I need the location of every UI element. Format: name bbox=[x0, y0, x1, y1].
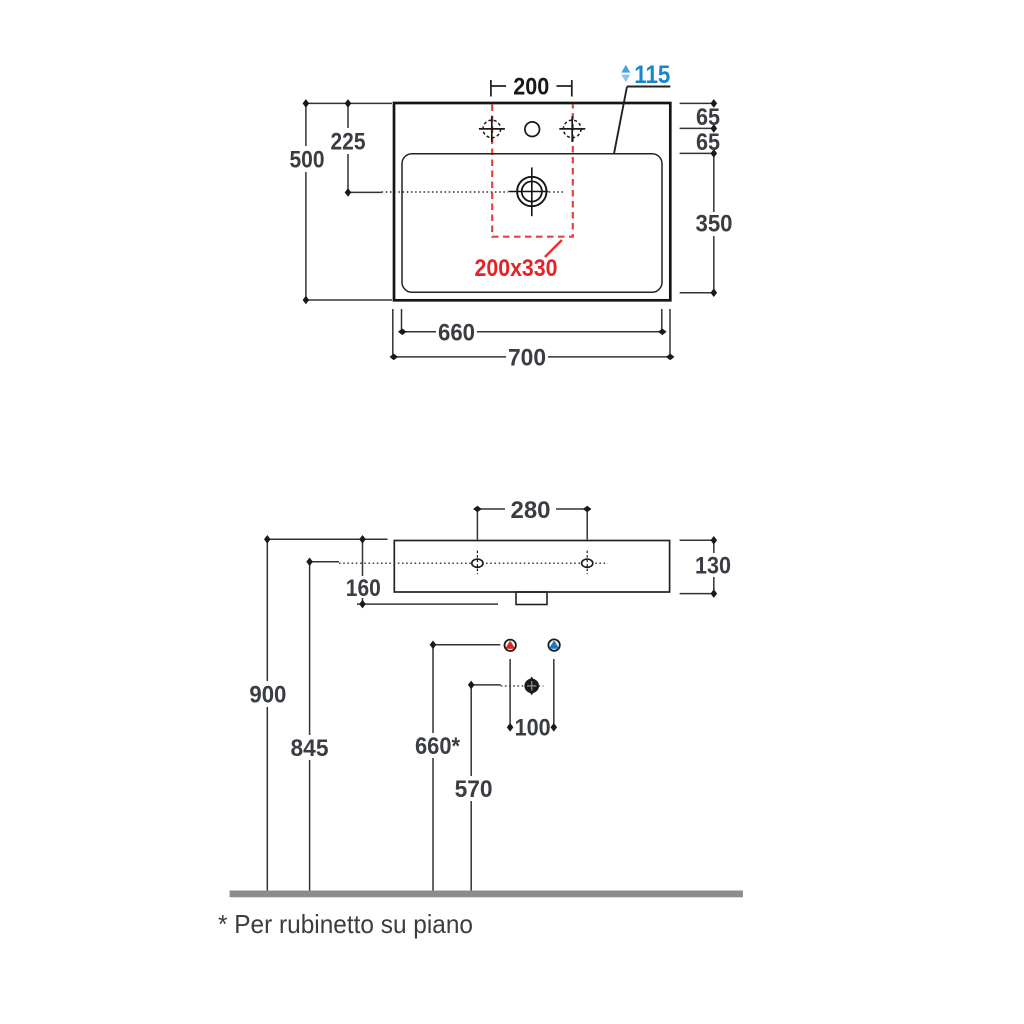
dim 845 bbox=[310, 562, 339, 891]
svg-text:500: 500 bbox=[290, 147, 325, 174]
svg-text:350: 350 bbox=[696, 211, 733, 238]
svg-text:660: 660 bbox=[438, 319, 475, 346]
svg-text:* Per rubinetto su piano: * Per rubinetto su piano bbox=[218, 909, 473, 939]
svg-text:280: 280 bbox=[511, 497, 551, 524]
svg-text:700: 700 bbox=[508, 344, 546, 371]
right faucet hole bbox=[559, 116, 585, 142]
dim 100 bbox=[510, 659, 554, 727]
svg-text:660*: 660* bbox=[415, 733, 461, 760]
drain bbox=[508, 167, 548, 216]
sink front rect bbox=[394, 541, 669, 593]
inner basin rounded rect bbox=[402, 154, 662, 293]
svg-text:845: 845 bbox=[291, 735, 329, 762]
svg-text:115: 115 bbox=[634, 61, 670, 89]
svg-text:225: 225 bbox=[331, 129, 366, 156]
dim 280 bbox=[477, 509, 587, 540]
svg-text:200: 200 bbox=[513, 74, 549, 101]
drain stub bbox=[516, 592, 547, 605]
hot water symbol bbox=[505, 640, 516, 651]
outer rect (sink rim) bbox=[394, 103, 670, 300]
svg-text:160: 160 bbox=[346, 575, 381, 602]
cold water symbol bbox=[548, 639, 559, 650]
svg-text:65: 65 bbox=[696, 104, 720, 131]
left faucet hole bbox=[479, 116, 505, 142]
svg-text:570: 570 bbox=[455, 776, 493, 803]
svg-text:65: 65 bbox=[696, 129, 720, 156]
red leader bbox=[545, 240, 562, 257]
left dims: 500 and 225 bbox=[306, 103, 392, 300]
red dashed rect 200x330 bbox=[492, 105, 573, 237]
svg-text:100: 100 bbox=[515, 714, 551, 741]
dim 160 bbox=[267, 539, 498, 604]
dim 200 (top) bbox=[491, 80, 572, 97]
dim 130 bbox=[680, 540, 716, 593]
svg-text:900: 900 bbox=[249, 682, 286, 709]
dotted centre line (drain horizontal) bbox=[382, 191, 509, 193]
dim 570 bbox=[471, 685, 501, 891]
mixer / drain symbol bbox=[524, 677, 539, 696]
dotted line to mixer bbox=[501, 685, 544, 687]
left oval hole bbox=[472, 551, 483, 574]
floor bbox=[230, 891, 743, 898]
dim 660* bbox=[433, 645, 500, 891]
dotted centre line through holes bbox=[339, 562, 608, 564]
dim 900 bbox=[266, 539, 268, 891]
bottom dims: 660 and 700 bbox=[392, 309, 671, 359]
svg-text:130: 130 bbox=[695, 552, 731, 579]
115 label (blue) bbox=[614, 61, 670, 154]
right oval hole bbox=[582, 551, 593, 574]
right dims: 65 / 65 / 350 bbox=[680, 103, 717, 292]
middle overflow hole bbox=[525, 122, 540, 137]
